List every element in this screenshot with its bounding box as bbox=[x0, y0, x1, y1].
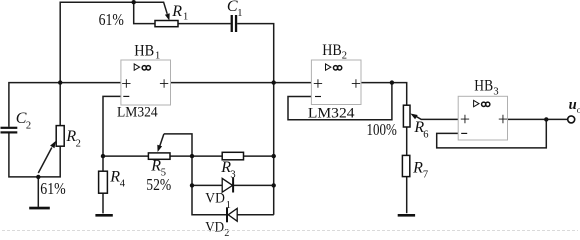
wire R1 to C1 bbox=[178, 23, 231, 25]
wire HB3 output to terminal bbox=[508, 118, 568, 120]
wire C1 to right vertical rail bbox=[237, 24, 274, 215]
svg-text:R: R bbox=[412, 159, 423, 176]
svg-text:2: 2 bbox=[76, 139, 81, 150]
svg-text:2: 2 bbox=[342, 50, 347, 61]
svg-text:100%: 100% bbox=[367, 120, 397, 139]
node HB2 output bbox=[390, 80, 394, 84]
op-amp HB1 triangle-infinity symbol bbox=[134, 64, 139, 70]
wire row R5 left bbox=[103, 155, 148, 157]
resistor R3 bbox=[222, 152, 243, 160]
svg-text:52%: 52% bbox=[146, 175, 171, 194]
wire HB2 feedback loop bbox=[288, 83, 392, 120]
svg-text:LM324: LM324 bbox=[308, 106, 355, 122]
op-amp U2 HB2 box bbox=[311, 60, 361, 105]
svg-text:7: 7 bbox=[423, 170, 428, 181]
wire row R3 right bbox=[244, 155, 274, 157]
node VD1 left bbox=[190, 183, 194, 187]
node C2 bottom / R2 wiper / ground bbox=[36, 175, 40, 179]
resistor R6 wiper arrowhead bbox=[410, 114, 417, 120]
resistor R2 wiper arrowhead bbox=[50, 141, 56, 148]
wire ground stem left bbox=[37, 177, 39, 207]
wire HB2 output to R6 bbox=[361, 83, 407, 106]
wire VD2 row gaps bbox=[192, 214, 274, 216]
svg-text:4: 4 bbox=[120, 179, 126, 190]
wire R1 left branch bbox=[134, 2, 155, 23]
svg-text:61%: 61% bbox=[40, 179, 66, 198]
svg-text:+: + bbox=[351, 73, 361, 93]
resistor R6 potentiometer bbox=[403, 105, 410, 127]
svg-text:1: 1 bbox=[183, 12, 188, 23]
svg-text:+: + bbox=[460, 109, 470, 129]
wire top rail from left vertical to R1 wiper bbox=[60, 2, 167, 125]
resistor R1 wiper arrowhead bbox=[165, 13, 170, 20]
svg-text:R: R bbox=[109, 169, 120, 186]
wire HB1 + input rail bbox=[9, 83, 121, 127]
svg-text:1: 1 bbox=[237, 8, 242, 19]
node HB1 minus / R4 / R5 row bbox=[101, 154, 105, 158]
capacitor C1 bbox=[231, 15, 233, 32]
ground left bbox=[29, 207, 50, 210]
op-amp HB2 minus input bbox=[315, 96, 321, 98]
node HB3 output bbox=[544, 117, 548, 121]
svg-text:61%: 61% bbox=[99, 10, 124, 29]
svg-text:2: 2 bbox=[224, 228, 229, 236]
resistor R7 bbox=[402, 155, 409, 176]
wire C2 bottom to R2 bottom bbox=[9, 134, 60, 177]
wire R4 stem bbox=[102, 156, 104, 213]
ground R7 bbox=[398, 214, 415, 217]
svg-text:u: u bbox=[569, 97, 577, 113]
wire VD1 row bbox=[192, 184, 274, 186]
svg-text:6: 6 bbox=[423, 129, 428, 140]
resistor R2 potentiometer bbox=[56, 126, 64, 147]
svg-text:2: 2 bbox=[26, 120, 31, 131]
svg-text:R: R bbox=[171, 3, 182, 20]
resistor R5 wiper arrowhead bbox=[157, 145, 162, 152]
wire row R5 right to R3 left bbox=[170, 155, 222, 157]
output terminal uo bbox=[568, 116, 575, 123]
resistor R5 potentiometer bbox=[148, 153, 170, 159]
svg-text:1: 1 bbox=[155, 50, 160, 61]
resistor R1 bbox=[155, 21, 178, 27]
wire R6 wiper to HB3 + input bbox=[416, 116, 459, 119]
wire HB3 feedback loop bbox=[437, 119, 547, 147]
svg-text:HB: HB bbox=[134, 43, 154, 60]
svg-text:+: + bbox=[498, 109, 508, 129]
svg-text:+: + bbox=[121, 73, 131, 93]
capacitor C2 bbox=[1, 127, 18, 129]
wire R5 wiper diagonal bbox=[160, 134, 164, 147]
svg-text:HB: HB bbox=[322, 42, 342, 59]
op-amp HB3 triangle-infinity symbol bbox=[474, 100, 479, 106]
op-amp HB2 triangle-infinity symbol bbox=[326, 64, 331, 70]
op-amp U3 HB3 box bbox=[458, 96, 507, 140]
svg-text:R: R bbox=[150, 158, 161, 175]
svg-text:LM324: LM324 bbox=[117, 105, 158, 121]
wire R2 wiper diagonal bbox=[38, 148, 52, 174]
node row / right rail bbox=[272, 154, 276, 158]
svg-text:3: 3 bbox=[493, 87, 498, 98]
node R5 wiper / row bbox=[190, 154, 194, 158]
op-amp HB1 minus input bbox=[123, 95, 129, 97]
node top rail / R1 bbox=[132, 0, 136, 4]
node VD1 right bbox=[272, 183, 276, 187]
svg-text:+: + bbox=[159, 73, 169, 93]
wire HB1 inverting input down to row bbox=[103, 96, 121, 156]
op-amp U1 HB1 box bbox=[121, 60, 171, 105]
node left rail crossing bbox=[58, 80, 62, 84]
svg-text:VD: VD bbox=[205, 219, 224, 235]
diode VD1 bbox=[222, 178, 232, 192]
resistor R4 bbox=[99, 171, 108, 193]
svg-text:HB: HB bbox=[474, 78, 493, 95]
node main crossing right rail bbox=[272, 80, 276, 84]
wire R6 to R7 bbox=[406, 127, 408, 155]
wire HB1 output to HB2 input bbox=[171, 82, 312, 84]
diode VD2 bbox=[228, 208, 237, 221]
op-amp HB3 minus input bbox=[461, 132, 467, 134]
wire R7 to ground bbox=[406, 177, 408, 214]
ground R4 bbox=[95, 214, 112, 217]
svg-text:VD: VD bbox=[205, 191, 225, 207]
wire R5 wiper loop bbox=[164, 134, 274, 215]
svg-text:+: + bbox=[313, 73, 323, 93]
